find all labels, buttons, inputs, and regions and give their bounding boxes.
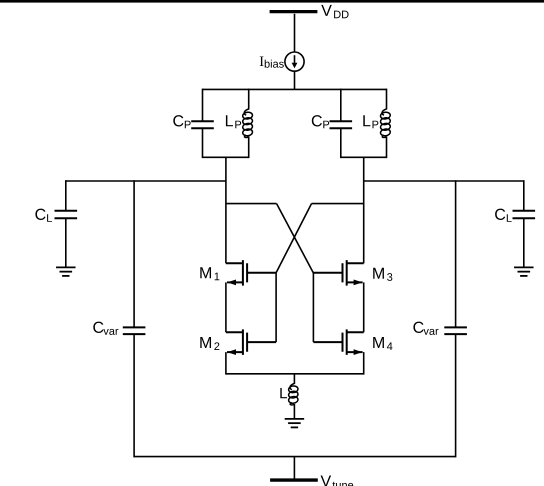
label Cvar1 <box>93 322 118 335</box>
inductor LP1 <box>242 109 253 138</box>
ground right <box>514 267 534 276</box>
transistor M2 <box>226 329 276 355</box>
wire left output column <box>225 157 227 263</box>
wire CL1 top lead <box>65 180 67 211</box>
inductor LP2 <box>380 109 391 138</box>
wire LP1 bottom lead <box>248 137 250 159</box>
wire M3 source to M4 drain <box>363 282 365 332</box>
label M1 <box>200 267 219 280</box>
label Ibias <box>260 57 284 68</box>
wire Cvar1 bottom lead <box>133 334 135 457</box>
wire M1 source to M2 drain <box>225 282 227 332</box>
wire Cvar1 top lead <box>133 180 135 327</box>
ground left <box>56 267 76 276</box>
wire VDD to Ibias <box>294 14 296 52</box>
wire Vtune stub <box>293 457 295 479</box>
wire left gate column <box>275 273 277 342</box>
wire CP1 top lead <box>202 89 204 122</box>
label M4 <box>373 337 392 350</box>
wire tail inductor to ground <box>293 404 295 419</box>
capacitor CL1 <box>55 211 78 219</box>
wire right output horizontal <box>364 180 524 182</box>
wire source bottom rail <box>226 373 364 375</box>
wire Cvar2 bottom lead <box>455 334 457 457</box>
label CP2 <box>312 115 329 128</box>
wire Cvar2 top lead <box>455 180 457 327</box>
wire diagonal left-to-right gate <box>277 204 314 273</box>
wire CP2 bottom lead <box>340 128 342 158</box>
wire cross-couple right horizontal <box>312 203 364 205</box>
label CL2 <box>495 209 512 222</box>
wire diagonal right-to-left gate <box>276 204 311 273</box>
wire right output column <box>363 157 365 263</box>
wire tank2 bottom rail <box>341 156 387 158</box>
wire cross-couple left horizontal <box>226 203 277 205</box>
wire left output horizontal <box>66 180 226 182</box>
wire LP2 bottom lead <box>386 137 388 159</box>
transistor M3 <box>313 260 363 286</box>
current source Ibias <box>285 52 304 71</box>
label L tail <box>280 388 287 398</box>
wire Ibias to tank rail <box>294 71 296 89</box>
label LP1 <box>226 115 241 128</box>
wire right gate column <box>312 273 314 342</box>
wire M4 source down <box>363 352 365 375</box>
transistor M4 <box>313 329 363 355</box>
wire CL1 bottom lead <box>65 218 67 267</box>
wire CL2 bottom lead <box>523 218 525 267</box>
label M3 <box>373 268 392 281</box>
inductor L tail <box>288 384 298 405</box>
capacitor CL2 <box>513 211 536 219</box>
capacitor Cvar2 <box>444 327 467 334</box>
power rail Vtune <box>270 475 353 486</box>
wire LP2 top lead <box>386 89 388 110</box>
capacitor Cvar1 <box>123 327 146 334</box>
wire tank1 bottom rail <box>203 156 249 158</box>
capacitor CP2 <box>330 121 353 128</box>
label Cvar2 <box>413 322 438 335</box>
wire CP1 bottom lead <box>202 128 204 158</box>
wire CL2 top lead <box>523 180 525 211</box>
wire CP2 top lead <box>340 89 342 122</box>
wire Vtune rail <box>134 456 456 458</box>
wire M2 source down <box>225 352 227 375</box>
label CP1 <box>173 115 190 128</box>
label LP2 <box>363 115 378 128</box>
ground tail <box>285 419 305 428</box>
label CL1 <box>35 209 52 222</box>
label M2 <box>200 337 219 350</box>
power rail VDD <box>270 5 349 18</box>
wire rail to tail inductor <box>293 374 295 384</box>
transistor M1 <box>226 260 276 286</box>
wire LP1 top lead <box>248 89 250 110</box>
wire tank top rail <box>203 88 387 90</box>
capacitor CP1 <box>191 121 214 128</box>
